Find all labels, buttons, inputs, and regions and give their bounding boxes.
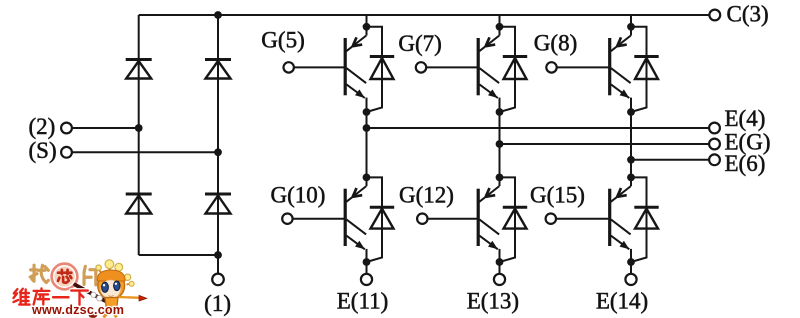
svg-text:G(15): G(15) xyxy=(530,183,585,208)
svg-text:E(6): E(6) xyxy=(725,151,766,176)
svg-text:www.dzsc.com: www.dzsc.com xyxy=(31,303,124,317)
svg-text:E(11): E(11) xyxy=(337,289,389,314)
svg-text:G(7): G(7) xyxy=(398,31,441,56)
svg-text:C(3): C(3) xyxy=(727,2,769,27)
svg-text:E(13): E(13) xyxy=(467,289,519,314)
svg-text:(2): (2) xyxy=(29,114,56,139)
svg-text:G(10): G(10) xyxy=(271,183,326,208)
svg-text:(S): (S) xyxy=(29,138,57,163)
svg-text:E(14): E(14) xyxy=(596,289,648,314)
svg-text:E(4): E(4) xyxy=(725,106,766,131)
svg-text:(1): (1) xyxy=(204,291,231,316)
svg-text:G(8): G(8) xyxy=(534,30,577,55)
svg-text:G(12): G(12) xyxy=(399,183,454,208)
svg-text:G(5): G(5) xyxy=(261,28,304,53)
